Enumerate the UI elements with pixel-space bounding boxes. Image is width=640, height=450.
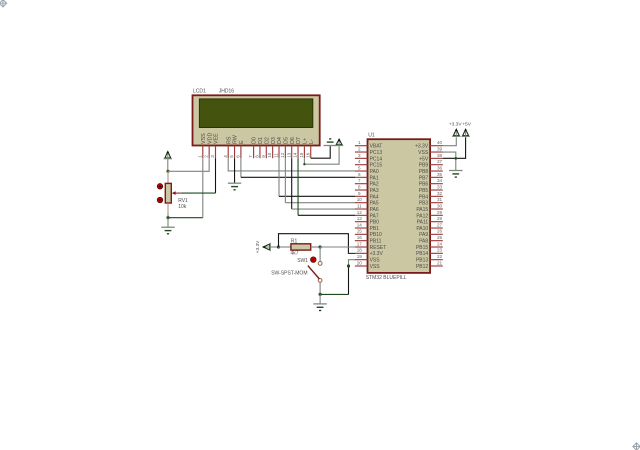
svg-text:PA6: PA6 xyxy=(370,207,379,213)
wire R1 to U1 RESET pin17 xyxy=(320,246,355,248)
svg-text:SW-SPST-MOM: SW-SPST-MOM xyxy=(271,270,307,276)
U1 pin 11 (PA6) stub + number + name xyxy=(355,203,379,213)
wire R1 left lead xyxy=(279,246,292,248)
wire junction to LCD VDD (horizontal) xyxy=(168,170,209,172)
U1 pin 20 (VSS) stub + number + name xyxy=(355,260,380,270)
svg-text:10: 10 xyxy=(357,197,363,202)
wire LCD D4 vertical xyxy=(278,158,280,196)
svg-text:37: 37 xyxy=(437,159,443,164)
svg-text:PA3: PA3 xyxy=(370,188,379,194)
node U1 pin20 junction xyxy=(347,264,350,267)
RV1 actuator button up xyxy=(157,184,162,189)
svg-text:VSS: VSS xyxy=(201,133,207,144)
svg-text:RV1: RV1 xyxy=(178,198,188,204)
LCD1 pin 11 (D4) stub + number xyxy=(274,137,284,158)
svg-text:D5: D5 xyxy=(283,137,289,144)
svg-text:21: 21 xyxy=(437,260,443,265)
svg-text:D0: D0 xyxy=(252,137,258,144)
svg-text:7: 7 xyxy=(248,155,253,158)
wire U1 pin38 to +5V arrow xyxy=(443,137,466,158)
LCD1 pin 4 (RS) stub + number xyxy=(223,136,233,158)
node L+ corner dot xyxy=(303,163,305,165)
wire LCD D4 to U1 PA4 xyxy=(279,195,355,197)
svg-text:4k7: 4k7 xyxy=(291,251,299,257)
wire pot bottom lead xyxy=(167,203,169,214)
wire pot bottom to junction xyxy=(167,214,169,218)
svg-text:31: 31 xyxy=(437,197,443,202)
svg-text:VBAT: VBAT xyxy=(370,144,383,150)
LCD1 pin 7 (D0) stub + number xyxy=(248,137,258,158)
svg-text:13: 13 xyxy=(286,152,291,158)
svg-text:VSS: VSS xyxy=(370,264,381,270)
svg-text:+3.3V: +3.3V xyxy=(449,121,462,127)
U1 pin 15 (PB10) stub + number + name xyxy=(355,229,382,239)
svg-text:11: 11 xyxy=(357,203,362,208)
node R1 left junction xyxy=(277,245,280,248)
svg-text:33: 33 xyxy=(437,184,443,189)
svg-text:38: 38 xyxy=(437,153,443,158)
wire arrow to R1 junction xyxy=(271,246,279,248)
svg-text:4: 4 xyxy=(223,155,228,158)
U1 pin 35 (PB7) stub + number + name xyxy=(419,172,443,182)
node pot bottom junction xyxy=(166,216,169,219)
wire LCD E to U1 PA1 xyxy=(241,176,355,178)
LCD1 pin 10 (D3) stub + number xyxy=(267,137,277,158)
svg-text:PC13: PC13 xyxy=(370,150,383,156)
svg-text:D7: D7 xyxy=(296,137,302,144)
svg-text:L-: L- xyxy=(309,139,315,144)
U1 pin 39 (VSS) stub + number + name xyxy=(418,146,443,156)
wire LCD RS to U1 PA0 xyxy=(228,158,355,171)
svg-text:PB10: PB10 xyxy=(370,232,382,238)
svg-text:30: 30 xyxy=(437,203,443,208)
wire pot ground stem xyxy=(167,218,169,228)
sheet origin marker bottom-right xyxy=(633,443,640,450)
svg-text:14: 14 xyxy=(293,152,298,158)
svg-text:6: 6 xyxy=(236,155,241,158)
U1 pin 18 (+3.3V) stub + number + name xyxy=(355,248,384,257)
svg-text:15: 15 xyxy=(357,229,363,234)
svg-text:29: 29 xyxy=(437,210,443,215)
svg-text:9: 9 xyxy=(261,155,266,158)
RV1 wiper arrow xyxy=(172,191,183,195)
svg-text:23: 23 xyxy=(437,248,443,253)
svg-text:PA2: PA2 xyxy=(370,182,379,188)
svg-text:PA11: PA11 xyxy=(417,220,429,226)
svg-text:JHD16: JHD16 xyxy=(219,89,235,95)
svg-text:18: 18 xyxy=(357,248,363,253)
U1 pin 8 (PA3) stub + number + name xyxy=(355,184,379,194)
U1 pin 6 (PA1) stub + number + name xyxy=(355,172,379,182)
wire U1 VSS column vertical xyxy=(348,266,350,294)
ground (right of U1) xyxy=(449,170,462,172)
svg-text:10k: 10k xyxy=(178,204,187,210)
svg-text:PB12: PB12 xyxy=(416,264,428,270)
svg-text:VEE: VEE xyxy=(214,133,220,144)
wire LCD D6 to U1 PA6 xyxy=(292,208,355,210)
svg-text:1: 1 xyxy=(197,155,202,158)
LCD1 pin 16 (L-) stub + number xyxy=(305,139,315,158)
svg-text:SW1: SW1 xyxy=(297,258,308,264)
LCD1 pin 3 (VEE) stub + number xyxy=(210,133,220,158)
svg-text:3: 3 xyxy=(210,155,215,158)
svg-text:VSS: VSS xyxy=(370,258,381,264)
svg-text:PB11: PB11 xyxy=(370,239,382,245)
wire LCD VSS riser xyxy=(202,158,204,218)
wire VEE to wiper (horizontal) xyxy=(182,192,216,194)
power symbol +3.3V arrow xyxy=(453,129,459,135)
svg-text:PB1: PB1 xyxy=(370,226,380,232)
svg-text:+5V: +5V xyxy=(419,156,429,162)
svg-text:16: 16 xyxy=(305,152,310,158)
svg-text:+5V: +5V xyxy=(462,121,471,127)
svg-text:35: 35 xyxy=(437,172,443,177)
svg-text:STM32 BLUEPILL: STM32 BLUEPILL xyxy=(366,275,407,281)
svg-text:D2: D2 xyxy=(264,137,270,144)
U1 pin 38 (+5V) stub + number + name xyxy=(419,153,443,163)
U1 pin 19 (VSS) stub + number + name xyxy=(355,254,380,264)
svg-text:PB7: PB7 xyxy=(419,175,429,181)
wire junction down to switch xyxy=(319,247,321,262)
power symbol +3.3V (left-pointing, reset pull-up) xyxy=(263,244,269,250)
svg-text:25: 25 xyxy=(437,235,443,240)
LCD1 pin 12 (D5) stub + number xyxy=(280,137,290,158)
svg-text:36: 36 xyxy=(437,165,443,170)
wire pot junction to LCD VSS (horizontal) xyxy=(168,217,203,219)
svg-text:3: 3 xyxy=(358,153,361,158)
U1 pin 26 (PA9) stub + number + name xyxy=(419,229,443,239)
svg-text:12: 12 xyxy=(357,210,363,215)
LCD1 green screen xyxy=(199,99,312,128)
U1 pin 2 (PC13) stub + number + name xyxy=(355,146,382,156)
svg-text:24: 24 xyxy=(437,241,443,246)
SW1 actuator button xyxy=(311,257,316,262)
svg-text:15: 15 xyxy=(299,152,304,158)
svg-text:+3.3V: +3.3V xyxy=(415,144,429,150)
svg-text:PB15: PB15 xyxy=(416,245,428,251)
svg-text:40: 40 xyxy=(437,140,443,145)
U1 pin 12 (PA7) stub + number + name xyxy=(355,210,379,220)
svg-text:PA0: PA0 xyxy=(370,169,379,175)
svg-text:PA7: PA7 xyxy=(370,213,379,219)
wire LCD RW ground stem xyxy=(234,158,236,183)
svg-text:+3.3V: +3.3V xyxy=(370,251,384,257)
U1 pin 10 (PA5) stub + number + name xyxy=(355,197,379,207)
svg-text:PB5: PB5 xyxy=(419,188,429,194)
U1 pin 27 (PA10) stub + number + name xyxy=(416,222,442,232)
svg-text:28: 28 xyxy=(437,216,443,221)
svg-text:12: 12 xyxy=(280,152,285,158)
svg-text:RESET: RESET xyxy=(370,245,387,251)
svg-text:PA5: PA5 xyxy=(370,201,379,207)
U1 pin 28 (PA11) stub + number + name xyxy=(417,216,443,226)
svg-text:L+: L+ xyxy=(303,138,309,144)
switch SW1 arm xyxy=(308,266,320,279)
U1 pin 13 (PB0) stub + number + name xyxy=(355,216,379,226)
U1 pin 5 (PA0) stub + number + name xyxy=(355,165,379,175)
U1 pin 33 (PB5) stub + number + name xyxy=(419,184,443,194)
U1 pin 34 (PB6) stub + number + name xyxy=(419,178,443,188)
wire R1-left loop to U1 +3.3V pin18 xyxy=(279,234,356,254)
svg-text:7: 7 xyxy=(358,178,361,183)
svg-text:13: 13 xyxy=(357,216,363,221)
svg-text:34: 34 xyxy=(437,178,443,183)
LCD1 pin 8 (D1) stub + number xyxy=(255,137,265,158)
svg-text:PC15: PC15 xyxy=(370,163,383,169)
wire LCD L- to flipped ground xyxy=(311,146,330,159)
svg-text:LCD1: LCD1 xyxy=(193,89,206,95)
wire LCD D6 vertical xyxy=(291,158,293,209)
wire LCD VEE vertical xyxy=(215,158,217,193)
svg-text:PB14: PB14 xyxy=(416,251,428,257)
svg-text:39: 39 xyxy=(437,146,443,151)
svg-text:6: 6 xyxy=(358,172,361,177)
svg-text:PA1: PA1 xyxy=(370,175,379,181)
wire switch ground stem xyxy=(319,294,321,304)
svg-text:11: 11 xyxy=(274,153,279,158)
svg-text:9: 9 xyxy=(358,191,361,196)
svg-text:D4: D4 xyxy=(277,137,283,144)
U1 pin 3 (PC14) stub + number + name xyxy=(355,153,382,163)
ground (below RV1) xyxy=(161,226,174,228)
svg-text:PB13: PB13 xyxy=(416,258,428,264)
wire switch bottom to junction xyxy=(319,282,321,294)
svg-text:R1: R1 xyxy=(291,239,298,245)
wire LCD D5 vertical xyxy=(284,158,286,202)
svg-text:PA4: PA4 xyxy=(370,194,379,200)
resistor R1 body xyxy=(291,244,311,250)
LCD1 pin 9 (D2) stub + number xyxy=(261,137,271,158)
svg-text:VSS: VSS xyxy=(418,150,429,156)
node pin39/pin38 wire crossing dot xyxy=(455,157,458,160)
LCD1 pin 1 (VSS) stub + number xyxy=(197,133,207,158)
U1 pin 36 (PB8) stub + number + name xyxy=(419,165,443,175)
U1 pin 16 (PB11) stub + number + name xyxy=(355,235,382,245)
svg-text:1: 1 xyxy=(358,140,361,145)
U1 pin 17 (RESET) stub + number + name xyxy=(355,241,386,251)
U1 pin 14 (PB1) stub + number + name xyxy=(355,222,379,232)
U1 pin 7 (PA2) stub + number + name xyxy=(355,178,379,188)
node pot top junction xyxy=(166,170,169,173)
wire LCD L+ to +5V arrow xyxy=(304,145,339,164)
svg-text:RS: RS xyxy=(226,136,232,144)
U1 pin 1 (VBAT) stub + number + name xyxy=(355,140,382,150)
U1 pin 4 (PC15) stub + number + name xyxy=(355,159,382,169)
svg-text:PB3: PB3 xyxy=(419,201,429,207)
svg-text:D6: D6 xyxy=(290,137,296,144)
RV1 actuator button down xyxy=(157,197,162,202)
svg-text:E: E xyxy=(239,140,245,144)
potentiometer RV1 body xyxy=(165,183,171,203)
wire LCD D7 to U1 PA7 xyxy=(298,214,355,216)
svg-text:17: 17 xyxy=(357,241,363,246)
wire junction down to pot top xyxy=(167,171,169,183)
svg-text:U1: U1 xyxy=(368,133,375,139)
svg-text:D3: D3 xyxy=(271,137,277,144)
wire R1 right lead xyxy=(311,246,320,248)
sheet origin marker top-left xyxy=(0,0,7,7)
ground (LCD RW) xyxy=(228,182,241,184)
node switch bottom junction xyxy=(319,293,322,296)
LCD1 pin 5 (RW) stub + number xyxy=(229,134,239,158)
U1 pin 9 (PA4) stub + number + name xyxy=(355,191,379,201)
U1 pin 23 (PB14) stub + number + name xyxy=(416,248,443,257)
ground (below SW1) xyxy=(313,303,326,305)
svg-text:PB0: PB0 xyxy=(370,220,380,226)
U1 pin 30 (PA15) stub + number + name xyxy=(416,203,442,213)
svg-text:5: 5 xyxy=(229,155,234,158)
svg-text:PA12: PA12 xyxy=(416,213,428,219)
svg-text:PB8: PB8 xyxy=(419,169,429,175)
svg-text:20: 20 xyxy=(357,260,363,265)
wire pot-top arrow stem xyxy=(167,159,169,171)
wire LCD D5 to U1 PA5 xyxy=(285,202,355,204)
svg-text:RW: RW xyxy=(233,134,239,144)
U1 pin 32 (PB4) stub + number + name xyxy=(419,191,443,201)
svg-text:19: 19 xyxy=(357,254,363,259)
svg-text:5: 5 xyxy=(358,165,361,170)
svg-text:16: 16 xyxy=(357,235,363,240)
wire LCD D7 vertical xyxy=(297,158,299,215)
U1 pin 22 (PB13) stub + number + name xyxy=(416,254,443,264)
wire U1 pin19 VSS link xyxy=(349,260,356,266)
LCD1 pin 14 (D7) stub + number xyxy=(293,137,303,158)
svg-text:PB6: PB6 xyxy=(419,182,429,188)
U1 pin 21 (PB12) stub + number + name xyxy=(416,260,443,270)
LCD1 pin 6 (E) stub + number xyxy=(236,140,246,158)
U1 pin 29 (PA12) stub + number + name xyxy=(416,210,442,220)
svg-text:27: 27 xyxy=(437,222,443,227)
wire LCD E vertical xyxy=(240,158,242,177)
wire LCD VDD riser xyxy=(208,158,210,172)
U1 pin 40 (+3.3V) stub + number + name xyxy=(415,140,443,150)
node R1 right junction xyxy=(319,245,322,248)
svg-text:14: 14 xyxy=(357,222,363,227)
wire switch junction to U1 VSS column xyxy=(320,293,348,295)
svg-text:PB9: PB9 xyxy=(419,163,429,169)
svg-text:+3.3V: +3.3V xyxy=(255,240,261,253)
LCD display LCD1 body xyxy=(193,95,320,145)
ground (LCD backlight, flipped up) xyxy=(324,145,337,147)
svg-text:26: 26 xyxy=(437,229,443,234)
svg-text:PA9: PA9 xyxy=(419,232,428,238)
svg-text:8: 8 xyxy=(358,184,361,189)
LCD1 pin 15 (L+) stub + number xyxy=(299,138,309,158)
svg-text:PA8: PA8 xyxy=(419,239,428,245)
svg-text:2: 2 xyxy=(204,155,209,158)
U1 pin 24 (PB15) stub + number + name xyxy=(416,241,443,251)
U1 pin 37 (PB9) stub + number + name xyxy=(419,159,443,169)
svg-text:2: 2 xyxy=(358,146,361,151)
power symbol +5V (LCD backlight) xyxy=(336,139,342,145)
svg-text:PA15: PA15 xyxy=(416,207,428,213)
U1 pin 31 (PB3) stub + number + name xyxy=(419,197,443,207)
microcontroller U1 body xyxy=(368,139,431,273)
LCD1 pin 2 (VDD) stub + number xyxy=(204,133,214,159)
power symbol +5V arrow xyxy=(463,129,469,135)
wire U1 pin40 to +3.3V arrow xyxy=(443,137,457,146)
svg-text:PA10: PA10 xyxy=(416,226,428,232)
switch SW1 bottom contact xyxy=(318,279,322,283)
svg-text:4: 4 xyxy=(358,159,361,164)
power symbol (pot top supply arrow) xyxy=(165,152,171,158)
LCD1 pin 13 (D6) stub + number xyxy=(286,137,296,158)
U1 pin 25 (PA8) stub + number + name xyxy=(419,235,443,245)
svg-text:PB4: PB4 xyxy=(419,194,429,200)
svg-text:D1: D1 xyxy=(258,137,264,144)
svg-text:8: 8 xyxy=(255,155,260,158)
svg-text:10: 10 xyxy=(267,152,272,158)
svg-text:VDD: VDD xyxy=(207,133,213,144)
svg-text:32: 32 xyxy=(437,191,443,196)
wire U1 pin39 to ground xyxy=(443,152,456,170)
switch SW1 top contact xyxy=(318,262,322,266)
svg-text:22: 22 xyxy=(437,254,443,259)
svg-text:PC14: PC14 xyxy=(370,156,383,162)
